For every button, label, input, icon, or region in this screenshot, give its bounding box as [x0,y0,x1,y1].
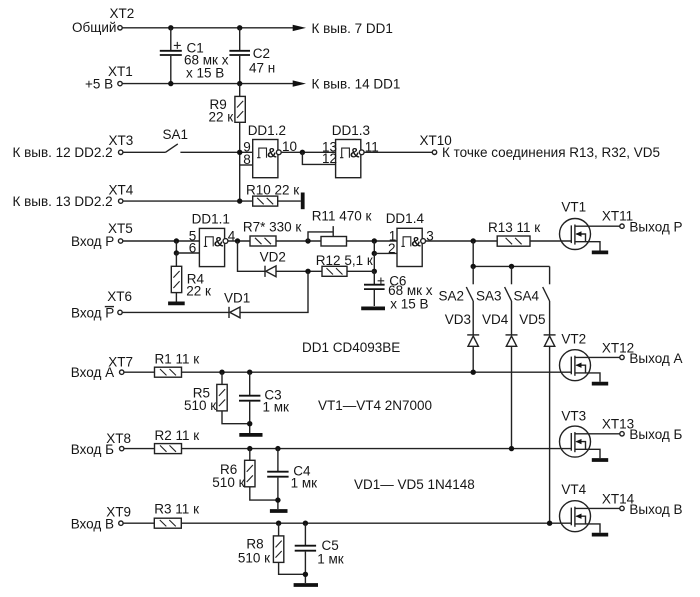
resistor R12 5,1к [316,253,373,276]
svg-text:DD1.3: DD1.3 [332,123,370,138]
resistor R6 510к [212,449,255,490]
terminal XT2 (Общий) [72,6,134,35]
wire XT4 to R10 [123,200,253,202]
wire +5V rail from XT1 to arrow [122,83,293,85]
terminal XT13 (Выход Б) [602,417,683,443]
node: R5 / C3 tie [247,421,252,426]
svg-text:VD5: VD5 [519,312,545,327]
svg-text:XT2: XT2 [110,6,135,21]
svg-text:К выв. 13 DD2.2: К выв. 13 DD2.2 [13,194,113,209]
svg-text:1 мк: 1 мк [291,476,318,491]
node: row A / VD3 [471,370,476,375]
svg-text:R10 22 к: R10 22 к [246,182,299,197]
svg-text:х 15 В: х 15 В [390,297,428,312]
resistor R3 11к [154,502,199,529]
wire pin3 node down to bus [472,241,474,266]
arrow to К выв. 7 DD1 [293,21,393,36]
wire SA1 to DD1.2 pin 9 [180,151,252,153]
svg-text:Вход Р: Вход Р [71,305,114,320]
svg-text:R8: R8 [246,536,263,551]
svg-text:&: & [411,234,421,249]
svg-text:Вход В: Вход В [71,516,114,531]
capacitor C2 47н [229,28,275,84]
node: R6 / C4 tie [275,497,280,502]
svg-text:SA1: SA1 [163,127,189,142]
node: row В / R8 [276,521,281,526]
wire step to pin 12 [302,152,335,164]
resistor R4 22к [171,253,211,299]
wire R6 bottom to C4 node [250,487,278,500]
capacitor C4 1мк [267,449,317,509]
svg-text:DD1 CD4093BE: DD1 CD4093BE [302,340,400,355]
svg-text:К точке соединения R13, R32, V: К точке соединения R13, R32, VD5 [442,145,660,160]
svg-text:VD1: VD1 [224,291,250,306]
capacitor C6 68мк x 15В [364,271,433,311]
wire switch bus [473,265,549,267]
node: row В / VD5 [547,521,552,526]
diode VD2 [260,250,286,277]
wire R8 bottom to C5 node [279,562,306,574]
terminal XT1 (+5 В) [85,64,133,92]
wire XT9 to R3 [123,522,154,524]
svg-text:XT6: XT6 [107,289,132,304]
node: row В / C5 [303,521,308,526]
node: junction VD1 / VD2 / R12 [305,269,310,274]
wire VD4 to row Б [511,346,513,448]
switch SA1 [163,127,189,152]
resistor R9 22к [209,84,246,125]
terminal XT9 (Вход В) [71,505,131,532]
ground at VT4 source [592,533,608,537]
svg-text:Выход Р: Выход Р [629,219,682,234]
wire pin 8 stub [240,164,253,166]
wire R12 to C6 node [347,270,374,272]
svg-text:R13 11 к: R13 11 к [488,220,540,235]
resistor R7* 330к [243,219,302,246]
svg-text:Выход А: Выход А [629,351,682,366]
resistor R5 510к [184,372,227,413]
wire VD1 up to R12/VD2 node [240,271,308,312]
logic gate DD1.1 [192,211,230,266]
op-amp U: logic gate DD1.2 [248,123,286,178]
svg-text:VT4: VT4 [561,482,586,497]
terminal XT12 (Выход А) [602,340,683,365]
svg-text:VD3: VD3 [445,312,471,327]
node: junction top rail / C1 [168,25,173,30]
diode VD3 [445,312,479,346]
terminal XT14 (Выход В) [602,491,683,517]
node: junction R12 / VD2 / C6 [372,269,377,274]
wire R5 bottom to C3 node [222,411,250,424]
wire XT6 to VD1 [122,311,229,313]
svg-text:+5 В: +5 В [85,77,113,92]
svg-text:R2 11 к: R2 11 к [155,428,200,443]
wire R7 to R11 [276,240,321,242]
diode VD1 [224,291,250,318]
switch SA2 [439,266,474,303]
resistor R13 11к [488,220,540,246]
logic gate DD1.3 [332,123,370,178]
diode VD5 [519,312,555,346]
wire R13 to VT1 gate [530,240,571,242]
wire DD1.1 output to R7 [228,240,250,242]
node: junction R9 rail / pin 9 [237,150,242,155]
capacitor C1 68мк x 15В [160,28,229,84]
svg-text:VD4: VD4 [482,312,509,327]
svg-text:&: & [267,146,277,161]
wire pin 6 stub [176,252,199,254]
wire SA3 to VD4 [511,301,513,335]
svg-text:47 н: 47 н [249,61,275,76]
svg-text:510 к: 510 к [212,475,244,490]
ground (chassis bar) after R10 [301,193,305,210]
svg-text:VD2: VD2 [260,250,286,265]
wire pin4 node down to VD2 [238,241,266,271]
node: junction pin 4 / VD2 branch [235,238,240,243]
wire SA4 to VD5 [549,301,551,335]
node: junction R11 tap [305,238,310,243]
svg-text:VT1: VT1 [561,200,586,215]
node: row Б / R6 [247,446,252,451]
node: row A / C3 [247,370,252,375]
svg-text:R7* 330 к: R7* 330 к [243,219,302,234]
wire R4 to ground [175,293,177,302]
svg-text:C2: C2 [253,46,270,61]
transistor VT1 2N7000 [560,200,620,251]
diode VD4 [482,312,518,346]
transistor VT2 2N7000 [560,332,620,382]
switch SA4 [514,266,550,303]
svg-text:DD1.4: DD1.4 [386,211,425,226]
arrow to К выв. 14 DD1 [293,77,401,92]
wire XT8 to R2 [124,448,155,450]
ground under C6 [361,306,385,310]
svg-text:К выв. 12 DD2.2: К выв. 12 DD2.2 [13,145,113,160]
svg-text:К выв. 14 DD1: К выв. 14 DD1 [312,77,401,92]
wire DD1.3 output to XT10 [364,151,432,153]
svg-text:2: 2 [388,241,396,256]
node: junction pins 1-2 tie [372,238,377,243]
svg-text:R12 5,1 к: R12 5,1 к [316,253,373,268]
node: junction top rail / C2 [237,25,242,30]
wire tie down to pin 6 [175,241,177,253]
wire pin2 node down to R12/VD2 node [373,253,375,271]
ground at VT3 source [592,458,608,462]
svg-text:К выв. 7 DD1: К выв. 7 DD1 [312,21,393,36]
wire pin 2 stub [374,252,397,254]
wire row A from R1 to VT2 gate [182,371,572,373]
terminal XT8 (Вход Б) [71,431,131,457]
wire tie down to pin 2 [373,241,375,253]
svg-text:&: & [214,234,224,249]
svg-text:х 15 В: х 15 В [186,65,224,80]
node: row Б / VD4 [509,446,514,451]
svg-text:22 к: 22 к [209,110,234,125]
svg-text:510 к: 510 к [238,550,270,565]
svg-text:12: 12 [322,151,337,166]
resistor R10 22к [246,182,299,206]
svg-text:22 к: 22 к [186,284,211,299]
svg-text:VD1— VD5 1N4148: VD1— VD5 1N4148 [354,477,475,492]
svg-text:VT3: VT3 [561,409,586,424]
logic gate DD1.4 [386,211,426,266]
ground at VT1 source [592,250,608,254]
terminal XT3 (К выв. 12 DD2.2) [13,133,134,160]
node: junction pins 13/12 [300,150,305,155]
node: junction pin 3 / switch bus [471,238,476,243]
ground at VT2 source [592,382,608,386]
wire XT7 to R1 [124,371,155,373]
terminal XT10 (К точке соединения R13, R32, VD5) [420,133,661,160]
wire R10 to chassis bar [278,200,301,202]
node: junction pin 6 / R4 [174,250,179,255]
svg-text:R11 470 к: R11 470 к [312,208,372,223]
capacitor C5 1мк [295,523,344,583]
switch SA3 [476,266,512,303]
resistor R1 11к [155,352,200,378]
node: row A / R5 [219,370,224,375]
transistor VT4 2N7000 [560,482,620,533]
wire row Б from R2 to VT3 gate [182,448,572,450]
node: junction +5V / R9 [237,81,242,86]
svg-text:SA3: SA3 [476,288,502,303]
terminal XT4 (К выв. 13 DD2.2) [13,183,134,209]
wire R11 to DD1.4 pin 1 [347,240,398,242]
capacitor C3 1мк [239,372,289,433]
svg-text:510 к: 510 к [184,398,216,413]
svg-text:VT1—VT4 2N7000: VT1—VT4 2N7000 [318,398,432,413]
ground under C4 [270,509,288,513]
svg-text:8: 8 [243,152,251,167]
svg-text:SA4: SA4 [514,288,540,303]
svg-text:DD1.1: DD1.1 [192,211,230,226]
wire top rail from XT2 to arrow [122,27,293,29]
node: junction +5V / C1 [168,81,173,86]
svg-text:R1 11 к: R1 11 к [155,352,200,367]
node: junction pin 2 / C6 [372,251,377,256]
node: row Б / C4 [275,446,280,451]
svg-text:SA2: SA2 [439,288,465,303]
resistor R8 510к [238,523,284,565]
resistor R11 470к (trimmer tap) [308,208,371,246]
node: bus / SA2 [471,264,476,269]
svg-text:1 мк: 1 мк [263,400,290,415]
wire R9 to DD1.2 input rail [239,122,241,201]
svg-text:Вход А: Вход А [71,365,114,380]
svg-text:VT2: VT2 [561,332,586,347]
svg-text:Общий: Общий [72,20,116,35]
terminal XT5 (Вход Р) [71,221,133,249]
svg-text:Выход В: Выход В [629,502,682,517]
svg-text:1 мк: 1 мк [317,552,344,567]
transistor VT3 2N7000 [560,409,620,459]
svg-text:Вход Р: Вход Р [71,234,114,249]
wire VD3 to row A [472,346,474,372]
wire VD2 to R12 [276,270,322,272]
node: R8 / C5 tie [303,572,308,577]
wire XT5 to DD1.1 pin 5 [123,240,200,242]
resistor R2 11к [155,428,200,453]
terminal XT7 (Вход А) [71,354,133,380]
wire row В from R3 to VT4 gate [181,522,571,524]
ground under C5 [294,583,318,587]
wire DD1.4 output to R13 [426,240,498,242]
terminal XT6 (Вход Р инв.) [71,289,132,321]
svg-text:Выход Б: Выход Б [629,427,682,442]
svg-text:6: 6 [189,241,197,256]
node: junction pin5/pin6 tie [174,238,179,243]
wire DD1.2 output to DD1.3 pin 13 [281,151,335,153]
node: junction pin-8 rail / XT4 row [237,198,242,203]
wire SA2 to VD3 [472,301,474,335]
wire VD5 to row В [549,346,551,523]
ground under C3 [239,433,262,437]
svg-text:DD1.2: DD1.2 [248,123,286,138]
svg-text:R3 11 к: R3 11 к [154,502,199,517]
terminal XT11 (Выход Р) [602,208,683,234]
svg-text:&: & [350,146,360,161]
wire XT3 to SA1 [123,151,166,153]
ground under R4 [168,301,185,305]
node: bus / SA3 [509,264,514,269]
svg-text:Вход Б: Вход Б [71,442,114,457]
